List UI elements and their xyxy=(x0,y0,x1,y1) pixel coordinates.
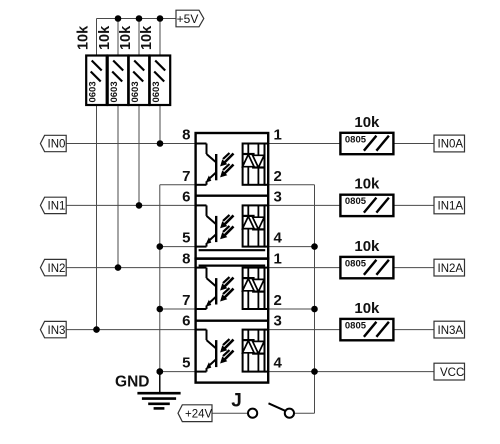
junction vcc rail xyxy=(311,243,318,250)
net flag IN3 xyxy=(40,321,66,337)
resistor R6 10k 0805 xyxy=(340,195,393,216)
junction vcc rail xyxy=(311,306,318,313)
svg-text:10k: 10k xyxy=(97,25,113,50)
LED pair channel 3 xyxy=(242,268,265,309)
junction top rail xyxy=(136,15,143,22)
wire IN0 to optocoupler xyxy=(66,143,195,145)
wire +24V to switch xyxy=(212,412,248,414)
svg-text:6: 6 xyxy=(182,188,190,205)
wire emitter stub 2 xyxy=(160,246,196,248)
svg-text:IN2: IN2 xyxy=(48,263,66,275)
svg-text:IN2A: IN2A xyxy=(438,263,464,275)
svg-text:0805: 0805 xyxy=(345,258,367,269)
opto U2 channel divider xyxy=(196,320,269,322)
opto U1 inner bottom line xyxy=(199,249,266,251)
svg-text:10k: 10k xyxy=(139,25,155,50)
svg-text:4: 4 xyxy=(274,355,283,372)
ground symbol xyxy=(137,372,180,409)
wire led to edge bottom ch4 xyxy=(265,371,269,373)
svg-text:10k: 10k xyxy=(354,300,380,317)
junction top rail xyxy=(115,15,122,22)
wire cathode stub 2 xyxy=(268,246,314,248)
svg-text:10k: 10k xyxy=(75,25,91,50)
wire cathode stub 3 xyxy=(268,308,314,310)
svg-text:0805: 0805 xyxy=(345,134,367,145)
wire pullup column top 3 xyxy=(138,19,140,56)
svg-text:10k: 10k xyxy=(354,176,380,193)
junction gnd rail xyxy=(157,243,164,250)
phototransistor channel 1 xyxy=(196,144,217,185)
wire led to edge top ch2 xyxy=(265,204,269,206)
wire IN3 to optocoupler xyxy=(66,329,195,331)
wire anode 4 to resistor xyxy=(268,329,340,331)
svg-text:0805: 0805 xyxy=(345,320,367,331)
wire cathode stub 1 xyxy=(268,184,314,186)
svg-text:0603: 0603 xyxy=(130,81,141,102)
svg-text:IN1A: IN1A xyxy=(438,201,464,213)
junction IN1 pullup xyxy=(136,202,143,209)
resistor R7 10k 0805 xyxy=(340,257,393,278)
junction IN0 pullup xyxy=(157,140,164,147)
wire led to edge bottom ch2 xyxy=(265,246,269,248)
phototransistor channel 4 xyxy=(196,330,217,372)
opto U1 outline xyxy=(196,133,269,259)
resistor R8 10k 0805 xyxy=(340,319,393,340)
svg-text:5: 5 xyxy=(182,230,190,247)
svg-text:1: 1 xyxy=(274,127,282,144)
svg-text:4: 4 xyxy=(274,230,283,247)
svg-text:10k: 10k xyxy=(354,114,380,131)
switch J contact 2 xyxy=(285,409,294,418)
svg-text:6: 6 xyxy=(182,313,190,330)
net flag IN1A xyxy=(434,197,465,214)
junction top rail xyxy=(157,15,164,22)
LED pair channel 4 xyxy=(242,330,265,372)
wire pullup column bottom 1 xyxy=(96,105,98,330)
svg-text:2: 2 xyxy=(274,292,282,309)
wire pullup column bottom 2 xyxy=(117,105,119,268)
wire led to edge top ch1 xyxy=(265,143,269,145)
light arrows channel 4 xyxy=(220,339,233,363)
svg-text:10k: 10k xyxy=(118,25,134,50)
net flag IN1 xyxy=(40,197,66,213)
svg-text:1: 1 xyxy=(274,251,282,268)
opto U2 outline xyxy=(196,259,269,383)
LED pair channel 1 xyxy=(242,144,265,185)
svg-text:7: 7 xyxy=(182,168,190,185)
junction gnd rail xyxy=(157,306,164,313)
wire resistor 3 to flag xyxy=(393,267,434,269)
wire emitter stub 4 xyxy=(160,371,196,373)
wire led to edge bottom ch3 xyxy=(265,308,269,310)
svg-text:IN3A: IN3A xyxy=(438,325,464,337)
svg-text:+5V: +5V xyxy=(177,12,199,26)
wire emitter stub 1 xyxy=(160,184,196,186)
resistor R3 10k 0603 pull-up xyxy=(129,56,150,106)
svg-text:7: 7 xyxy=(182,292,190,309)
svg-text:8: 8 xyxy=(182,127,190,144)
wire anode 3 to resistor xyxy=(268,267,340,269)
wire anode 2 to resistor xyxy=(268,204,340,206)
light arrows channel 2 xyxy=(220,215,233,239)
svg-text:10k: 10k xyxy=(354,238,380,255)
wire pullup column bottom 3 xyxy=(138,105,140,205)
wire IN2 to optocoupler xyxy=(66,267,195,269)
junction IN2 pullup xyxy=(115,264,122,271)
svg-text:J: J xyxy=(231,391,242,412)
switch J contact 1 xyxy=(248,409,257,418)
net flag IN0 xyxy=(40,135,66,151)
svg-text:IN0: IN0 xyxy=(48,139,66,151)
light arrows channel 3 xyxy=(220,277,233,301)
wire cathode stub 4 xyxy=(268,371,434,373)
svg-text:0603: 0603 xyxy=(109,81,120,102)
svg-text:3: 3 xyxy=(274,188,282,205)
svg-text:0805: 0805 xyxy=(345,196,367,207)
wire rail to switch xyxy=(294,412,314,414)
resistor R4 10k 0603 pull-up xyxy=(150,56,171,106)
wire emitter stub 3 xyxy=(160,308,196,310)
wire emitter ground rail xyxy=(159,185,161,393)
svg-text:8: 8 xyxy=(182,251,190,268)
phototransistor channel 2 xyxy=(196,205,217,246)
svg-text:0603: 0603 xyxy=(88,81,99,102)
wire +5V top rail xyxy=(97,18,177,20)
wire resistor 4 to flag xyxy=(393,329,434,331)
net flag IN0A xyxy=(434,135,465,152)
svg-text:+24V: +24V xyxy=(185,408,213,420)
power flag +5V xyxy=(176,10,204,27)
phototransistor channel 3 xyxy=(196,268,217,309)
net flag VCC xyxy=(434,363,465,380)
wire led to edge top ch4 xyxy=(265,329,269,331)
wire VCC rail xyxy=(314,185,316,413)
net flag IN2 xyxy=(40,259,66,275)
wire resistor 1 to flag xyxy=(393,143,434,145)
switch J lever xyxy=(269,403,286,411)
svg-text:2: 2 xyxy=(274,168,282,185)
wire resistor 2 to flag xyxy=(393,204,434,206)
wire pullup column top 4 xyxy=(159,19,161,56)
svg-text:GND: GND xyxy=(115,374,149,391)
junction gnd rail xyxy=(157,368,164,375)
svg-text:IN3: IN3 xyxy=(48,325,66,337)
light arrows channel 1 xyxy=(220,153,233,177)
wire pullup column top 1 xyxy=(96,19,98,56)
wire led to edge top ch3 xyxy=(265,267,269,269)
wire led to edge bottom ch1 xyxy=(265,184,269,186)
opto U2 inner top line xyxy=(199,265,266,267)
gnd junction xyxy=(157,368,164,375)
junction vcc rail xyxy=(311,368,318,375)
power flag +24V xyxy=(178,405,213,422)
net flag IN2A xyxy=(434,259,465,276)
resistor R5 10k 0805 xyxy=(340,133,393,154)
svg-text:VCC: VCC xyxy=(440,367,464,379)
resistor R2 10k 0603 pull-up xyxy=(108,56,129,106)
svg-text:IN1: IN1 xyxy=(48,201,66,213)
junction IN3 pullup xyxy=(93,326,100,333)
wire pullup column bottom 4 xyxy=(159,105,161,144)
svg-text:5: 5 xyxy=(182,355,190,372)
svg-text:3: 3 xyxy=(274,313,282,330)
wire pullup column top 2 xyxy=(117,19,119,56)
svg-text:0603: 0603 xyxy=(151,81,162,102)
svg-text:IN0A: IN0A xyxy=(438,139,464,151)
wire anode 1 to resistor xyxy=(268,143,340,145)
wire IN1 to optocoupler xyxy=(66,204,195,206)
net flag IN3A xyxy=(434,321,465,338)
resistor R1 10k 0603 pull-up xyxy=(86,56,107,106)
LED pair channel 2 xyxy=(242,205,265,246)
opto U1 channel divider xyxy=(196,194,269,196)
